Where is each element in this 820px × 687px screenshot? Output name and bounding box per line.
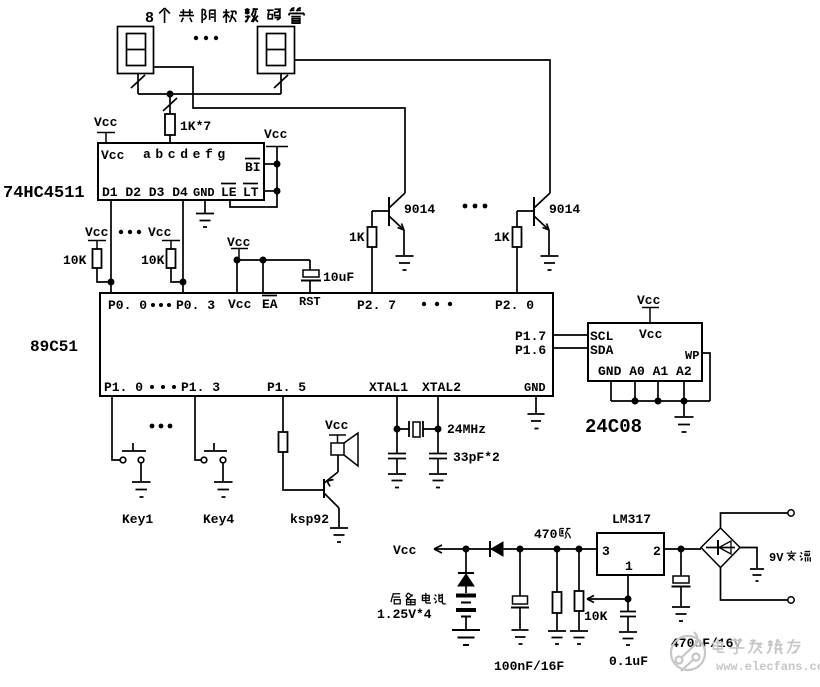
- junction node 10K pot branch: [576, 546, 583, 553]
- ground symbol below U1: [196, 214, 214, 228]
- power Vcc symbol for pullup R (10K #1): [85, 225, 109, 249]
- wire U3 GND pin: [610, 381, 612, 401]
- svg-text:SDA: SDA: [590, 343, 614, 358]
- IC U1 74HC4511 body: [98, 143, 264, 200]
- wire main DC rail with arrow to Vcc: [434, 545, 597, 553]
- terminal circle AC top: [788, 510, 794, 516]
- capacitor C1 33pF: [388, 454, 406, 459]
- ground symbol U2 GND: [528, 414, 545, 429]
- pin label EA with overbar: [262, 296, 278, 313]
- ground symbol C2: [429, 474, 447, 488]
- wire XTAL1 branch: [396, 396, 398, 453]
- wire Q1 base: [371, 211, 373, 227]
- svg-text:RST: RST: [299, 295, 321, 309]
- svg-text:Vcc: Vcc: [325, 418, 349, 433]
- label 后备电池: [391, 593, 446, 605]
- junction node EA pin: [260, 257, 267, 264]
- IC U4 LM317 body: [597, 533, 664, 575]
- wire U1 D1 to 89C51 P0.0: [110, 200, 112, 293]
- speaker LS1: [331, 433, 358, 466]
- svg-text:www.elecfans.com: www.elecfans.com: [716, 660, 820, 674]
- transistor Q3 ksp92: [324, 472, 339, 508]
- wire Key4 to ground: [222, 463, 224, 481]
- svg-text:24C08: 24C08: [585, 416, 642, 438]
- svg-text:P1. 3: P1. 3: [181, 380, 220, 395]
- capacitor C2 33pF: [429, 454, 447, 459]
- wire adj to pot wiper with arrow: [587, 596, 628, 603]
- ground symbol Key1: [132, 482, 151, 497]
- junction node BI pullup: [274, 161, 281, 168]
- dots between displays: [194, 36, 218, 40]
- resistor 470R: [553, 592, 562, 613]
- wire C5 to ground: [680, 587, 682, 606]
- svg-text:100nF/16F: 100nF/16F: [494, 659, 564, 674]
- wire U3 bus to ground: [683, 401, 685, 416]
- svg-text:1.25V*4: 1.25V*4: [377, 607, 432, 622]
- wire DS1 to transistor Q1 collector rail: [154, 67, 405, 193]
- svg-text:Vcc: Vcc: [639, 327, 663, 342]
- watermark text 电子发烧友: [713, 639, 800, 654]
- wire P1.3 to Key4: [195, 396, 201, 460]
- wire bridge AC bottom to terminal: [721, 568, 789, 601]
- 7-segment display DS1: [118, 27, 154, 74]
- power Vcc symbol above U2 Vcc/EA: [227, 235, 251, 260]
- wire SCL to P1.7: [553, 334, 588, 336]
- svg-text:10uF: 10uF: [323, 270, 354, 285]
- svg-text:LE: LE: [221, 185, 237, 200]
- wire Vcc pullup rail to BI LE LT: [230, 147, 277, 207]
- junction node XTAL1: [394, 426, 401, 433]
- capacitor C3 100nF/16F: [511, 596, 529, 608]
- wire U3 A2 pin: [683, 381, 685, 401]
- svg-text:Vcc: Vcc: [637, 293, 661, 308]
- power Vcc symbol right of U1: [264, 127, 288, 147]
- ground symbol C1: [388, 474, 406, 488]
- wire 10K #2 to P0.3 net: [171, 268, 183, 282]
- wire common cathode bus: [138, 93, 281, 95]
- wire U3 A0 pin: [634, 381, 636, 401]
- watermark logo circle: [671, 632, 705, 671]
- wire WP loop: [702, 353, 710, 401]
- dots between keys: [150, 424, 173, 429]
- wire XTAL2 branch: [437, 396, 439, 453]
- switch Key4: [201, 443, 227, 463]
- wire Vcc/EA/RST rail: [237, 260, 310, 293]
- wire P1.5 to resistor: [282, 396, 284, 432]
- svg-text:Vcc: Vcc: [101, 148, 125, 163]
- title label: 8个共阴极数码管: [145, 8, 304, 27]
- power Vcc symbol for pullup R (10K #2): [148, 225, 180, 249]
- junction node P0.3 pullup: [180, 279, 187, 286]
- wire RST branch upper: [309, 260, 311, 270]
- ground symbol Q1 emitter: [396, 256, 414, 270]
- svg-text:P2. 0: P2. 0: [495, 298, 534, 313]
- svg-text:89C51: 89C51: [30, 338, 78, 356]
- svg-text:74HC4511: 74HC4511: [3, 184, 85, 203]
- wire resistor to 74HC4511: [169, 135, 171, 143]
- junction node Vcc pin: [234, 257, 241, 264]
- wire DS2 cathode pin with bus slash: [274, 74, 288, 94]
- wire Q3 collector to ground: [338, 508, 340, 527]
- switch Key1: [120, 443, 146, 463]
- svg-text:LT: LT: [243, 185, 259, 200]
- dots between pullups: [119, 230, 141, 234]
- svg-text:9014: 9014: [404, 202, 435, 217]
- svg-text:1K: 1K: [349, 230, 365, 245]
- junction node 470uF branch: [678, 546, 685, 553]
- svg-text:2: 2: [653, 544, 661, 559]
- junction node adj/cap: [625, 596, 632, 603]
- svg-text:P0. 0: P0. 0: [108, 298, 147, 313]
- wire C2 to ground: [437, 459, 439, 473]
- crystal Y1 24MHz: [397, 421, 438, 437]
- wire bridge AC top to terminal: [721, 513, 789, 528]
- ground symbol C5: [672, 607, 690, 621]
- label 9V交流: [769, 551, 811, 565]
- resistor 1K*7: [165, 114, 175, 135]
- svg-text:D1 D2 D3 D4: D1 D2 D3 D4: [102, 185, 188, 200]
- svg-text:P1. 0: P1. 0: [104, 380, 143, 395]
- wire SDA to P1.6: [553, 347, 588, 349]
- svg-text:Vcc: Vcc: [148, 225, 172, 240]
- wire diode to battery: [465, 586, 467, 593]
- wire C4 to ground: [627, 617, 629, 631]
- resistor 1K (Q1 base): [368, 227, 377, 247]
- ground symbol battery: [452, 630, 480, 645]
- svg-text:Vcc: Vcc: [393, 543, 417, 558]
- wire LM317 adj pin 1: [627, 575, 629, 611]
- junction node P0.0 pullup: [108, 279, 115, 286]
- svg-text:XTAL1: XTAL1: [369, 380, 408, 395]
- ground symbol 470R: [548, 631, 566, 644]
- diode D2 (rail, series): [490, 541, 503, 557]
- wire U3 ground bus: [611, 400, 710, 402]
- ground symbol pot: [570, 631, 588, 644]
- svg-text:P2. 7: P2. 7: [357, 298, 396, 313]
- ground symbol Key4: [214, 482, 233, 497]
- junction node 100nF branch: [517, 546, 524, 553]
- svg-text:24MHz: 24MHz: [447, 422, 486, 437]
- pin label LE with overbar: [221, 184, 237, 201]
- svg-text:10K: 10K: [584, 609, 608, 624]
- junction node XTAL2: [435, 426, 442, 433]
- svg-text:WP: WP: [685, 349, 699, 363]
- svg-text:EA: EA: [262, 297, 278, 312]
- transistor Q1 9014: [372, 193, 405, 230]
- ground symbol C3: [512, 630, 529, 644]
- wire U2 GND pin: [535, 396, 537, 413]
- terminal circle AC bottom: [788, 597, 794, 603]
- wire P1.0 to Key1: [112, 396, 120, 460]
- svg-text:3: 3: [602, 544, 610, 559]
- svg-text:Vcc: Vcc: [94, 115, 118, 130]
- wire bus to resistor with slash: [163, 94, 177, 114]
- wire 470R to ground: [556, 613, 558, 630]
- junction node LT pullup: [274, 188, 281, 195]
- wire LM317 out to bridge: [664, 548, 701, 550]
- svg-text:LM317: LM317: [612, 512, 651, 527]
- svg-text:XTAL2: XTAL2: [422, 380, 461, 395]
- svg-text:Key1: Key1: [122, 512, 153, 527]
- junction node A2: [681, 398, 688, 405]
- value label 470欧: [534, 527, 570, 542]
- svg-text:8: 8: [145, 10, 154, 27]
- wire 10K pot branch: [578, 549, 580, 591]
- svg-text:Vcc: Vcc: [228, 297, 252, 312]
- pin label LT with overbar: [243, 184, 259, 201]
- dots between Q1 and Q2: [463, 204, 488, 209]
- wire bridge right to ground: [740, 548, 757, 569]
- transistor Q2 9014: [517, 193, 550, 230]
- resistor 10K pullup #2: [167, 249, 176, 268]
- junction node A0: [632, 398, 639, 405]
- wire speaker to Q3 emitter: [337, 455, 339, 472]
- wire 1K to P2.7: [371, 247, 373, 293]
- 7-segment display DS2: [258, 27, 295, 74]
- diode D1 (battery): [458, 573, 474, 586]
- capacitor C4 0.1uF: [620, 612, 636, 617]
- wire Q2 emitter to ground: [548, 230, 550, 255]
- svg-text:33pF*2: 33pF*2: [453, 450, 500, 465]
- ground symbol bridge: [750, 569, 764, 581]
- wire RST branch lower: [309, 281, 311, 293]
- ground symbol U3: [675, 417, 694, 432]
- ground symbol Q3: [330, 528, 348, 542]
- IC U3 24C08 body: [588, 323, 702, 381]
- svg-text:P1.6: P1.6: [515, 343, 546, 358]
- power Vcc symbol above U3 24C08: [637, 293, 661, 323]
- svg-text:470: 470: [534, 527, 558, 542]
- svg-text:GND: GND: [524, 381, 546, 395]
- wire U1 D4 to 89C51 P0.3: [182, 200, 184, 293]
- svg-text:1: 1: [625, 559, 633, 574]
- wire C3 to ground: [519, 608, 521, 629]
- wire battery branch: [465, 549, 467, 573]
- svg-text:10K: 10K: [141, 253, 165, 268]
- svg-text:ksp92: ksp92: [290, 512, 329, 527]
- wire battery to ground: [465, 617, 467, 629]
- junction node battery branch: [463, 546, 470, 553]
- svg-text:P0. 3: P0. 3: [176, 298, 215, 313]
- wire 470R branch: [556, 549, 558, 592]
- junction node 470R branch: [554, 546, 561, 553]
- wire C1 to ground: [396, 459, 398, 473]
- svg-text:Key4: Key4: [203, 512, 234, 527]
- pin label BI with overbar: [245, 159, 261, 176]
- svg-text:9014: 9014: [549, 202, 580, 217]
- capacitor 10uF (RST): [301, 270, 321, 281]
- wire Q2 base: [516, 211, 518, 227]
- junction node A1: [655, 398, 662, 405]
- wire 100nF branch: [519, 549, 521, 596]
- svg-text:abcdefg: abcdefg: [143, 147, 230, 162]
- resistor 10K pullup #1: [93, 249, 102, 268]
- svg-text:P1. 5: P1. 5: [267, 380, 306, 395]
- svg-text:GND A0 A1 A2: GND A0 A1 A2: [598, 364, 692, 379]
- wire Q1 emitter to ground: [403, 230, 405, 255]
- battery BT1 1.25V*4: [456, 596, 476, 617]
- wire resistor to Q3 base: [283, 452, 324, 490]
- wire 10K #1 to P0.0 net: [97, 268, 111, 282]
- svg-text:1K*7: 1K*7: [180, 119, 211, 134]
- svg-text:P1.7: P1.7: [515, 329, 546, 344]
- power Vcc symbol above U1: [94, 115, 118, 143]
- svg-text:SCL: SCL: [590, 329, 614, 344]
- resistor 1K (Q2 base): [513, 227, 522, 247]
- wire U1 GND pin: [204, 200, 206, 213]
- svg-text:10K: 10K: [63, 253, 87, 268]
- wire DS2 to transistor Q2 collector rail: [295, 60, 550, 193]
- bridge rectifier BR1: [701, 528, 740, 568]
- dots between P2.7 and P2.0: [422, 302, 452, 306]
- wire U3 A1 pin: [657, 381, 659, 401]
- wire 1K to P2.0: [516, 247, 518, 293]
- svg-text:Vcc: Vcc: [264, 127, 288, 142]
- svg-text:1K: 1K: [494, 230, 510, 245]
- capacitor C5 470uF/16V: [672, 576, 691, 587]
- junction node at cathode bus: [167, 91, 174, 98]
- wire DS1 cathode pin with bus slash: [131, 74, 145, 94]
- svg-text:0.1uF: 0.1uF: [609, 654, 648, 669]
- wire pot to ground: [578, 611, 580, 630]
- svg-text:9V: 9V: [769, 551, 784, 565]
- potentiometer 10K: [575, 591, 584, 611]
- svg-text:GND: GND: [193, 186, 215, 200]
- resistor (buzzer base): [279, 432, 288, 452]
- IC U2 89C51 body: [100, 293, 553, 396]
- power Vcc symbol above speaker: [325, 418, 349, 443]
- wire Key1 to ground: [140, 463, 142, 481]
- ground symbol Q2 emitter: [541, 256, 559, 270]
- ground symbol C4: [619, 632, 637, 645]
- svg-text:BI: BI: [245, 160, 261, 175]
- wire 470uF branch: [680, 549, 682, 576]
- svg-text:Vcc: Vcc: [85, 225, 109, 240]
